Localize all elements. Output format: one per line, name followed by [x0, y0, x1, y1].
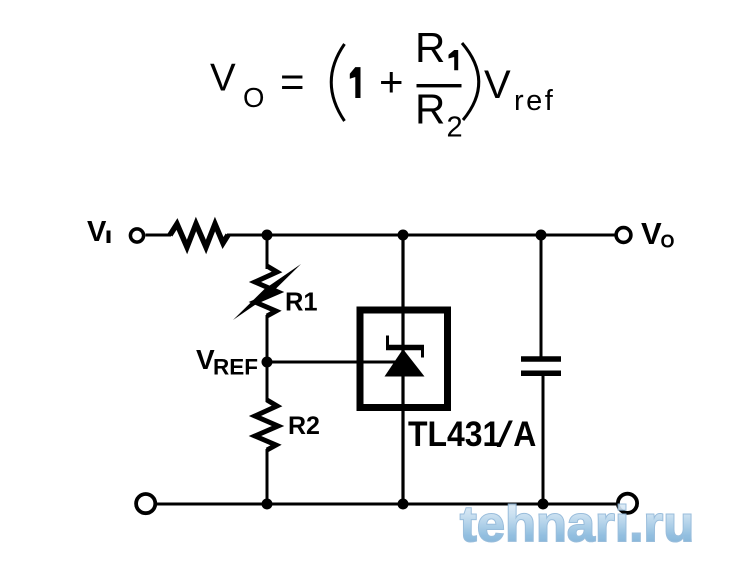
terminal bottom right circle: [618, 494, 637, 513]
wire bottom rail: [156, 503, 617, 506]
svg-text:R2: R2: [288, 412, 320, 440]
formula V_ref: [484, 63, 555, 117]
svg-text:V: V: [641, 216, 662, 251]
formula fraction bar: [417, 84, 462, 87]
resistor R1 adjustment arrow: [233, 264, 301, 320]
svg-text:+: +: [379, 58, 404, 105]
node bottom capacitor junction: [538, 499, 549, 510]
terminal output circle: [616, 228, 631, 243]
formula V_O: [210, 57, 264, 114]
label V_O: [641, 216, 675, 252]
formula numerator R1: [415, 24, 458, 71]
node bottom R2 junction: [262, 499, 273, 510]
TL431 box U1: [360, 310, 448, 408]
wire TL431 cathode-anode vertical: [401, 235, 404, 504]
svg-text:A: A: [513, 414, 536, 454]
svg-text:R: R: [415, 85, 445, 132]
node bottom TL431 junction: [398, 499, 409, 510]
wire Vref node to TL431 reference input: [267, 361, 397, 364]
node top capacitor junction: [536, 230, 547, 241]
label TL431/A: [408, 414, 536, 454]
formula right parenthesis: [462, 43, 479, 120]
wire input terminal to series resistor: [146, 234, 172, 237]
svg-text:TL431: TL431: [408, 414, 500, 454]
TL431 cathode bar right downstroke: [421, 348, 424, 358]
svg-text:O: O: [243, 82, 264, 113]
wire top rail resistor to V_O terminal: [227, 234, 615, 237]
label V_I: [87, 216, 111, 248]
svg-text:V: V: [87, 216, 107, 248]
node top TL431 junction: [398, 230, 409, 241]
wire capacitor top: [540, 235, 543, 357]
svg-text:=: =: [280, 58, 305, 105]
node Vref junction: [262, 357, 273, 368]
formula left parenthesis: [331, 44, 344, 121]
svg-text:tehnari.ru: tehnari.ru: [460, 496, 694, 552]
svg-text:ref: ref: [514, 85, 555, 117]
node top R1 junction: [262, 230, 273, 241]
TL431 cathode bar: [386, 345, 424, 351]
label V_REF: [196, 344, 258, 380]
svg-text:REF: REF: [213, 355, 258, 380]
formula 1 +: [350, 58, 404, 105]
wire R1 to Vref node: [266, 315, 269, 402]
capacitor C1 bottom plate: [521, 370, 561, 376]
terminal input circle: [130, 229, 143, 242]
terminal bottom left circle: [136, 494, 155, 513]
capacitor C1 top plate: [521, 356, 561, 362]
svg-text:R1: R1: [285, 289, 318, 317]
svg-text:2: 2: [447, 112, 463, 144]
svg-text:V: V: [210, 57, 236, 100]
svg-text:V: V: [484, 63, 511, 107]
TL431 diode triangle: [385, 349, 425, 377]
series input resistor: [170, 224, 228, 247]
svg-text:O: O: [661, 232, 675, 252]
formula denominator R2: [415, 85, 463, 143]
wire capacitor bottom: [542, 375, 545, 504]
resistor R2 zigzag: [255, 400, 278, 450]
wire top rail down to R1: [266, 235, 269, 269]
resistor R1 zigzag: [255, 266, 278, 316]
wire R2 to bottom rail: [266, 449, 269, 504]
svg-text:R: R: [415, 24, 445, 71]
TL431 cathode bar left upstroke: [386, 336, 389, 349]
